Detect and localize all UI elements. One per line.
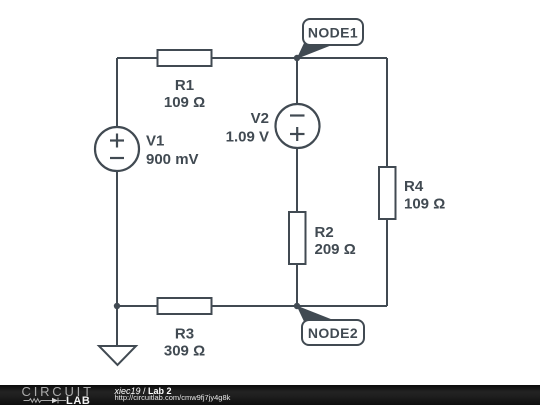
wire top-left segment [117,57,158,59]
voltage source V2 [226,104,320,148]
junction at NODE2 [294,303,300,309]
footer bar [0,385,540,405]
svg-text:NODE2: NODE2 [308,325,358,341]
CircuitLab logo [0,385,95,405]
resistor R2 [289,212,356,264]
ground [99,346,136,365]
node NODE1 [297,19,364,59]
svg-text:LAB: LAB [66,395,90,405]
wire middle upper (NODE1 to V2 top) [296,58,298,104]
resistor R4 [379,167,445,219]
wire bottom-right segment (NODE2 to right corner) [297,305,387,307]
svg-text:1.09 V: 1.09 V [226,129,269,146]
resistor R3 [158,298,212,360]
wire bottom-middle segment (R3 to NODE2) [212,305,297,307]
wire left vertical upper (to V1 top) [116,58,118,127]
svg-text:R4: R4 [404,178,424,195]
wire middle lower (R2 bottom to NODE2) [296,264,298,306]
svg-text:V2: V2 [251,110,269,127]
svg-text:309 Ω: 309 Ω [164,343,205,360]
svg-text:NODE1: NODE1 [308,25,358,41]
node NODE2 [297,306,365,346]
svg-text:109 Ω: 109 Ω [404,196,445,213]
svg-text:R2: R2 [315,224,334,241]
wire top-middle segment (R1 to NODE1) [211,57,297,59]
wire right vertical lower (R4 bottom to bottom rail) [386,219,388,306]
wire top-right segment (NODE1 to right corner) [297,57,387,59]
svg-text:900 mV: 900 mV [146,151,199,168]
wire left vertical lower (V1 bottom to bottom rail) [116,171,118,306]
voltage source V1 [95,127,199,171]
svg-text:R1: R1 [175,77,194,94]
svg-text:209 Ω: 209 Ω [315,241,356,258]
svg-text:R3: R3 [175,326,194,343]
wire ground stub [116,306,118,346]
junction at ground / bottom-left [114,303,120,309]
svg-text:V1: V1 [146,133,164,150]
svg-text:109 Ω: 109 Ω [164,94,205,111]
wire bottom-left segment [117,305,157,307]
resistor R1 [158,50,212,111]
wire middle mid (V2 bottom to R2 top) [296,148,298,212]
wire right vertical upper (to R4 top) [386,58,388,167]
junction at NODE1 [294,55,300,61]
